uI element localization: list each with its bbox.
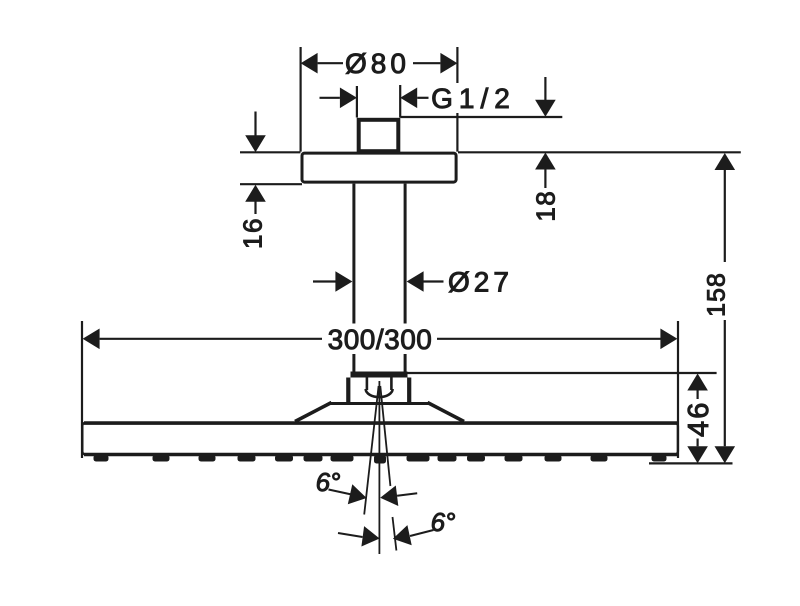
svg-text:46: 46 bbox=[683, 401, 715, 437]
svg-text:158: 158 bbox=[703, 272, 731, 317]
svg-text:6°: 6° bbox=[431, 507, 456, 537]
svg-text:300/300: 300/300 bbox=[328, 324, 433, 355]
svg-text:16: 16 bbox=[238, 217, 268, 249]
svg-text:18: 18 bbox=[531, 190, 561, 222]
svg-text:Ø27: Ø27 bbox=[448, 267, 513, 298]
svg-text:6°: 6° bbox=[316, 467, 341, 497]
svg-text:Ø80: Ø80 bbox=[345, 48, 410, 79]
svg-text:G1/2: G1/2 bbox=[431, 83, 516, 114]
